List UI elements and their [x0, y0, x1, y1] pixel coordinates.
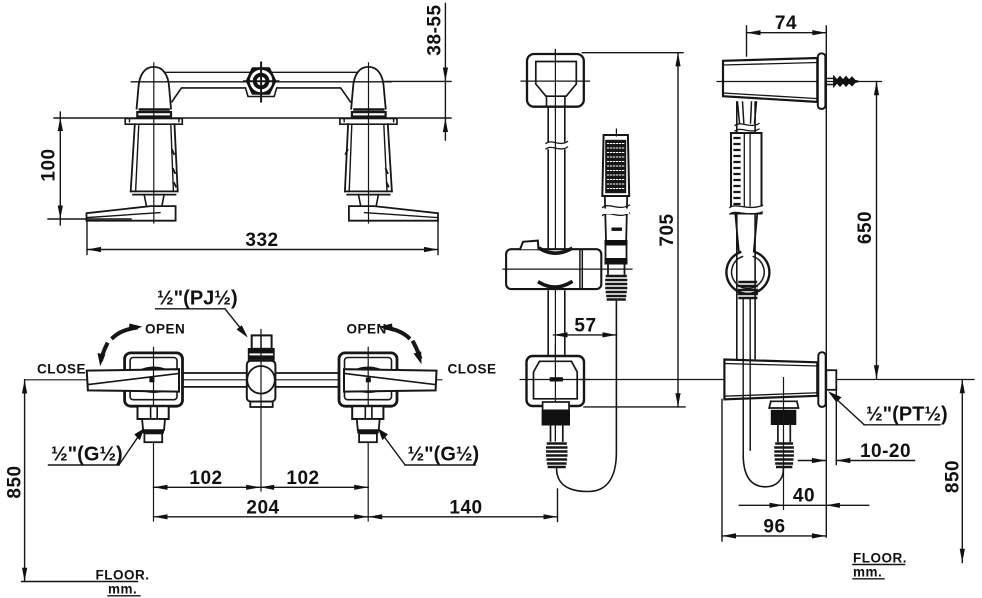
right handle cartridge arcs: [354, 368, 384, 392]
dim 705 arrow up: [675, 53, 680, 67]
diverter top nut: [252, 335, 272, 348]
svg-text:96: 96: [763, 517, 785, 538]
left handle outer square: [125, 353, 183, 406]
slider mid centerline: [503, 268, 632, 270]
slider rail clamp arc top: [540, 249, 571, 253]
dim 102 left arrow right: [246, 485, 260, 490]
dim 100 line: [59, 112, 61, 225]
open arc arrow right lower segment: [414, 343, 420, 358]
bottom wall plate: [818, 352, 825, 407]
wall line: [825, 26, 827, 537]
right collar: [357, 419, 380, 430]
svg-text:74: 74: [775, 13, 797, 34]
outlet coil (side): [776, 444, 793, 468]
dim 102 right arrow left: [260, 485, 274, 490]
left lever blade inner edge: [87, 213, 160, 218]
svg-text:40: 40: [793, 486, 815, 507]
dim 705 line: [677, 53, 679, 407]
dim 38-55 extension upper: [385, 80, 451, 82]
floor line left: [22, 581, 138, 583]
dim 850 right arrow down: [960, 549, 965, 563]
dim 332 line: [87, 249, 438, 251]
outlet hose coil: [547, 444, 566, 468]
right flange escutcheon (top view): [340, 119, 397, 125]
dim 850 left arrow down: [22, 568, 27, 582]
hose guide ring inner: [732, 257, 765, 289]
handshower band 1: [605, 240, 628, 246]
left flange notch left: [129, 119, 131, 122]
left lever blade (top view): [87, 206, 176, 221]
dim 57 line: [554, 334, 617, 336]
dim 74 extension left: [746, 26, 748, 56]
table line (mounting surface, top view): [54, 117, 451, 119]
dim 10-20 left line and arrow: [798, 460, 826, 462]
dim 850 right arrow up: [960, 380, 965, 394]
top hanger top edge double: [723, 63, 817, 66]
right hex nut facet lines: [365, 406, 372, 419]
hose lines over bottom bracket: [743, 359, 750, 457]
svg-text:OPEN: OPEN: [145, 321, 185, 336]
shower body spray edge ticks: [735, 138, 740, 210]
label PT leader: [831, 394, 865, 425]
dim 850 left line: [24, 380, 26, 582]
left handle center dot: [149, 378, 154, 383]
dim 332 extension left: [86, 222, 88, 255]
svg-text:705: 705: [657, 213, 678, 246]
left body cone inner left edge: [136, 124, 139, 191]
hose from handshower to U-turn: [557, 302, 617, 492]
slider rail clamp arc bottom: [540, 282, 572, 287]
dim 10-20 right line and arrow: [836, 460, 914, 462]
dim 140 line: [368, 516, 557, 518]
rail lower segment: [548, 291, 565, 356]
main horizontal centerline left: [25, 379, 442, 381]
left lever inner edge: [88, 374, 178, 385]
handshower mid section: [606, 246, 627, 259]
svg-text:½"(PT½): ½"(PT½): [866, 404, 948, 426]
dim 204 line: [154, 516, 369, 518]
left dome base ring 1: [140, 108, 169, 111]
label G half right underline: [405, 464, 475, 466]
left handle inner square: [130, 358, 177, 400]
top bracket crosshair horizontal: [521, 80, 590, 82]
right thread end: [359, 433, 377, 442]
dim 705 extension top: [582, 52, 683, 54]
label G half right leader: [381, 433, 405, 465]
dim 650 line: [876, 82, 878, 380]
supply pipe right segment: [275, 373, 339, 387]
bridge center edge line through domes: [131, 81, 391, 83]
left collar: [142, 419, 165, 430]
bridge lower edge with center dip: [172, 88, 350, 102]
diverter bottom cap: [250, 402, 272, 407]
bottom bracket outer: [527, 356, 585, 406]
right body cone inner right edge: [384, 124, 387, 191]
center hex nut hole: [257, 77, 266, 86]
right dome base ring 2: [352, 112, 386, 116]
svg-text:OPEN: OPEN: [347, 321, 387, 336]
label PT underline: [864, 424, 940, 426]
svg-text:204: 204: [246, 498, 279, 519]
left thread end: [144, 433, 162, 442]
label PJ underline: [156, 308, 225, 310]
svg-text:332: 332: [245, 230, 278, 251]
dim 96 arrow left: [722, 533, 736, 538]
left handle centerline vertical: [153, 347, 155, 521]
label mm left underline: [108, 595, 140, 597]
open arc arrow right upper segment: [386, 328, 409, 338]
left body cone inner right edge: [171, 124, 174, 191]
left dark band: [143, 430, 164, 433]
dim 140 arrow right: [544, 514, 558, 519]
bottom bracket collar: [543, 402, 569, 410]
svg-text:850: 850: [5, 465, 26, 498]
rail centerline: [554, 50, 556, 441]
dim 57 arrow left: [554, 332, 568, 337]
handshower grip dash: [612, 228, 623, 231]
diverter body: [247, 361, 276, 402]
top hanger body: [723, 58, 817, 102]
dim 38-55 arrow down to top line: [443, 68, 448, 82]
behind-wall fitting: [826, 370, 836, 390]
dim 74 arrow right: [812, 30, 826, 35]
top bracket crosshair vertical (over inner): [554, 50, 556, 111]
bottom bracket bottom edge double: [724, 393, 817, 396]
dim 96 arrow right: [812, 533, 826, 538]
top bracket tongue: [547, 96, 565, 107]
top hanger centerline horizontal: [717, 81, 882, 83]
dim 332 arrow left: [87, 247, 101, 252]
diverter circle: [247, 366, 275, 394]
left body cone outer right edge: [175, 124, 178, 191]
open arc arrow right upper head: [379, 324, 393, 332]
diverter top ring outline: [249, 349, 274, 360]
top bracket outer: [527, 54, 584, 107]
dim 102 left arrow left: [154, 485, 168, 490]
open arc arrow left lower head: [98, 353, 106, 366]
handshower band 2: [605, 258, 628, 265]
rail (side view, behind shower body): [737, 102, 755, 359]
handshower handle break: [603, 205, 630, 216]
dim 140 extension right: [557, 489, 559, 522]
open arc arrow left upper head: [129, 324, 143, 332]
handshower head spray face: [605, 140, 626, 193]
dim 650 arrow up: [874, 82, 879, 96]
dim 96 extension left: [721, 399, 723, 541]
dim 57 arrow right: [603, 332, 617, 337]
dim 40 arrow to wall: [826, 503, 840, 508]
svg-text:140: 140: [449, 498, 482, 519]
right handle center dot: [366, 378, 371, 383]
right lever blade inner edge: [365, 213, 438, 218]
label G half left leader: [119, 433, 141, 465]
left body cone outer left edge: [131, 124, 135, 191]
dim 100 arrow up: [58, 118, 63, 132]
left lever blade (front): [87, 369, 179, 391]
open arc arrow right lower head: [414, 351, 422, 364]
bottom bracket black nut: [542, 410, 570, 425]
supply pipe left segment: [183, 373, 248, 387]
open arc arrow left lower segment: [101, 345, 106, 360]
dim 96 line: [722, 535, 826, 537]
center nut crosshair vertical: [260, 63, 262, 102]
dim 74 line: [747, 32, 827, 34]
dim 332 extension right: [437, 222, 439, 255]
dim 40 arrow to outlet center: [770, 503, 784, 508]
right body cone inner left edge: [349, 124, 352, 191]
left body cone reflection ticks: [172, 150, 176, 187]
bottom bracket crosshair vertical: [554, 345, 556, 441]
top wall plate: [818, 53, 826, 109]
right lever inner edge: [345, 374, 435, 385]
dim 332 arrow right: [424, 247, 438, 252]
outlet collar (side): [769, 401, 798, 408]
rail middle segment: [548, 150, 565, 249]
svg-text:10-20: 10-20: [860, 441, 911, 462]
center nut crosshair horizontal: [244, 80, 279, 82]
label PJ leader arrowhead: [237, 325, 248, 337]
dim 204 arrow left: [154, 514, 168, 519]
slider body: [506, 249, 601, 289]
hose U-turn to outlet: [743, 456, 783, 487]
handshower head outline: [602, 135, 629, 196]
left body cone bottom lines: [131, 191, 178, 194]
right flange notch left: [343, 119, 345, 122]
left dome base ring 2: [137, 112, 171, 116]
svg-text:mm.: mm.: [853, 565, 882, 580]
top hanger bottom edge double: [723, 93, 817, 99]
right handle hex nut below: [352, 406, 383, 419]
dim 100 arrow down: [58, 206, 63, 220]
hose lines down from coil: [743, 300, 750, 457]
bottom bracket inner: [534, 361, 578, 399]
left neck: [144, 195, 164, 206]
label mm right underline: [853, 578, 884, 580]
left handle hex nut below: [138, 406, 169, 419]
right lever blade (front): [344, 369, 437, 391]
svg-text:½"(G½): ½"(G½): [51, 444, 123, 466]
diverter centerline vertical: [260, 330, 262, 492]
right handle inner square: [345, 358, 392, 400]
dim 140 arrow left: [368, 514, 382, 519]
label PT arrowhead: [828, 391, 841, 402]
dim 102 left line: [154, 486, 261, 488]
stem break symbol: [735, 124, 759, 132]
wall screw thread: [834, 77, 859, 86]
svg-text:FLOOR.: FLOOR.: [96, 568, 150, 583]
bottom bracket center dash: [550, 377, 563, 381]
dim 100 extension bottom: [48, 218, 131, 220]
svg-text:650: 650: [855, 211, 876, 244]
label G half right arrowhead: [378, 428, 388, 440]
svg-text:CLOSE: CLOSE: [448, 361, 497, 376]
dim 74 arrow left: [747, 30, 761, 35]
center hex nut white ring: [251, 71, 271, 91]
dim 204 arrow right: [354, 514, 368, 519]
svg-text:850: 850: [943, 460, 964, 493]
slider release button: [520, 241, 538, 250]
right body cone bottom lines: [345, 191, 392, 194]
handshower handle white gap: [604, 209, 629, 215]
bottom bracket crosshair horizontal: [520, 379, 589, 381]
svg-text:38-55: 38-55: [425, 4, 446, 55]
right body cone reflection ticks: [346, 150, 389, 187]
bottom bracket body (side): [724, 360, 817, 400]
left hex nut facet lines: [151, 406, 158, 419]
right neck: [359, 195, 379, 206]
label PJ leader line: [225, 309, 246, 335]
svg-text:CLOSE: CLOSE: [37, 361, 86, 376]
dim 705 arrow down: [675, 393, 680, 407]
hose guide ring outer: [726, 252, 769, 294]
svg-text:57: 57: [574, 316, 596, 337]
svg-text:102: 102: [286, 468, 319, 489]
dim 102 right line: [260, 486, 368, 488]
long centerline through bottom brackets to 850 dim: [580, 379, 974, 381]
rail break symbol upper: [546, 142, 568, 150]
center hex nut (diverter, top view): [247, 69, 275, 94]
label G half left arrowhead: [134, 428, 144, 440]
left flange notch right: [178, 119, 180, 122]
bridge spout top edge: [166, 71, 357, 73]
left flange escutcheon (top view): [125, 119, 182, 125]
right lever blade (top view): [349, 206, 438, 221]
dim 850 right line: [961, 380, 963, 563]
svg-text:mm.: mm.: [108, 582, 137, 597]
bottom bracket top edge double: [724, 364, 817, 367]
left handle cartridge arcs: [139, 368, 169, 392]
svg-text:100: 100: [39, 148, 60, 181]
outlet pipe (side): [778, 425, 790, 441]
outlet black nut (side): [771, 410, 797, 425]
outlet centerline vertical: [783, 378, 785, 510]
right handle centerline vertical: [368, 63, 370, 223]
svg-text:FLOOR.: FLOOR.: [853, 551, 907, 566]
handshower hose spring coil: [607, 276, 627, 300]
dim 38-55 line: [444, 4, 446, 141]
left handle centerline vertical: [153, 63, 155, 223]
left handle dome (top view): [137, 67, 171, 109]
wall screw shaft: [826, 78, 835, 84]
shower body inner lines: [744, 133, 750, 214]
dim 705 extension bottom: [584, 406, 685, 408]
handshower handle upper: [605, 196, 627, 240]
handshower head face dots: [608, 144, 626, 189]
dim 38-55 arrow up to bottom line: [443, 118, 448, 132]
right body cone outer right edge: [388, 124, 392, 191]
svg-text:½"(G½): ½"(G½): [408, 444, 480, 466]
dim 10-20 extension: [835, 391, 837, 465]
diverter top nut facet: [260, 335, 262, 348]
right handle dome (top view): [351, 67, 386, 109]
shower body break: [730, 207, 764, 214]
ring hose coil: [739, 282, 757, 298]
handshower neck: [608, 265, 625, 274]
stem below hanger: [738, 102, 757, 123]
open arc arrow left upper segment: [113, 328, 136, 338]
svg-text:102: 102: [189, 468, 222, 489]
svg-text:½"(PJ½): ½"(PJ½): [157, 288, 238, 310]
dim 40 line: [739, 504, 868, 506]
label G half left underline: [49, 464, 120, 466]
diverter top ring dark bands: [249, 349, 274, 353]
right dark band: [357, 430, 378, 433]
right handle centerline vertical: [367, 347, 369, 521]
handshower head centerline tick: [615, 129, 617, 136]
dim 102 right arrow right: [354, 485, 368, 490]
dim 650 arrow down: [874, 365, 879, 379]
right handle outer square: [339, 353, 397, 406]
shower body (side): [731, 133, 762, 214]
right body cone outer left edge: [345, 124, 348, 191]
outlet pipe: [551, 426, 563, 442]
shower handle (side): [735, 214, 757, 252]
dim 850 left arrow up: [22, 380, 27, 394]
rail upper segment: [548, 107, 565, 142]
right dome base ring 1: [355, 108, 384, 111]
slider divider lines: [580, 249, 582, 289]
floor line right: [853, 564, 905, 566]
right flange notch right: [393, 119, 395, 122]
top bracket inner: [536, 62, 577, 97]
